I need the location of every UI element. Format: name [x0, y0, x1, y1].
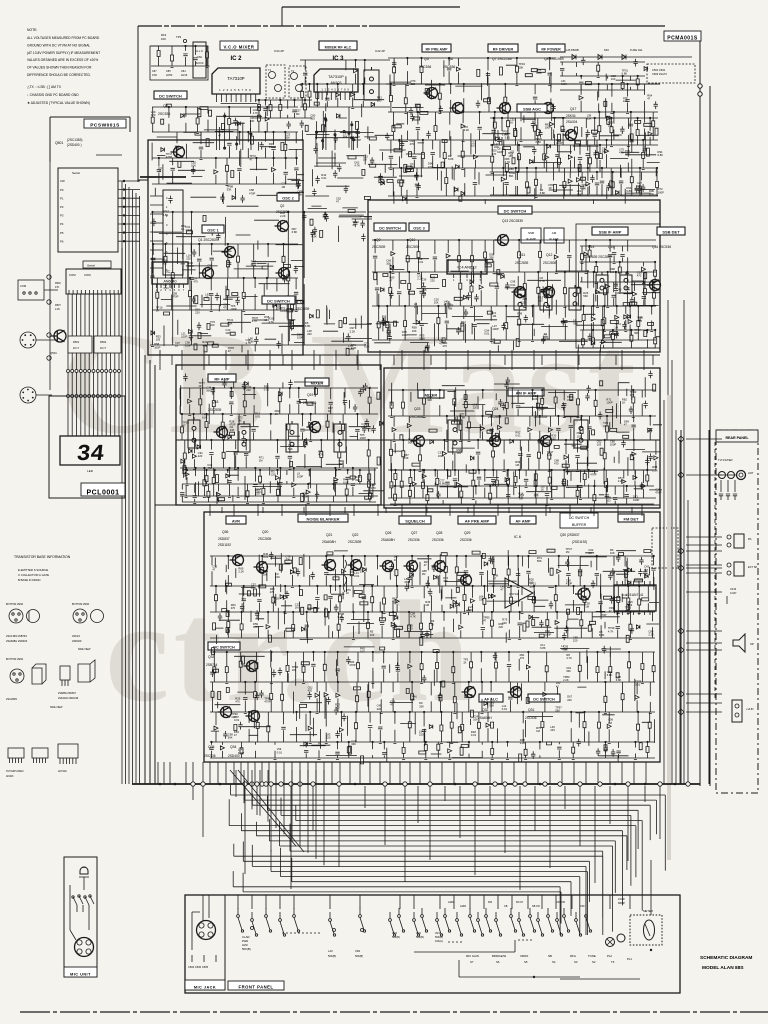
- svg-text:220: 220: [430, 279, 435, 283]
- svg-text:33K: 33K: [479, 598, 484, 602]
- MIXER label box rx: [305, 378, 329, 386]
- front panel switches: [238, 908, 590, 934]
- svg-text:CB/PA: CB/PA: [520, 954, 528, 958]
- IC3 pin drop wires: [315, 107, 358, 150]
- DC SWITCH Q31 label box: [528, 694, 560, 702]
- svg-text:56K: 56K: [408, 441, 413, 445]
- strip divider wires: [122, 180, 660, 762]
- svg-text:6800P: 6800P: [618, 902, 625, 905]
- vco input column parts: [151, 46, 210, 68]
- svg-text:2SD866 2SD837: 2SD866 2SD837: [58, 692, 77, 695]
- svg-text:103: 103: [156, 338, 161, 342]
- svg-text:470P: 470P: [590, 472, 596, 476]
- svg-text:TA7310P AN612: TA7310P AN612: [6, 770, 24, 773]
- selector switch rotary B: [20, 387, 36, 403]
- supply diodes: [572, 55, 626, 60]
- svg-text:2SD400: 2SD400: [72, 639, 82, 643]
- svg-text:4.7K: 4.7K: [252, 319, 258, 323]
- rx strip signal wire: [176, 439, 660, 441]
- op-amp IC6 triangle: [505, 578, 533, 608]
- svg-text:Q28: Q28: [436, 531, 443, 535]
- svg-text:1/50: 1/50: [152, 74, 157, 77]
- top inner border line: [282, 6, 460, 8]
- svg-text:33K: 33K: [489, 256, 494, 260]
- svg-text:6.8K: 6.8K: [292, 230, 298, 234]
- svg-text:IC 3: IC 3: [332, 56, 344, 62]
- if can T7: [334, 421, 346, 452]
- svg-text:6.8K: 6.8K: [616, 678, 622, 682]
- svg-text:1K: 1K: [269, 145, 272, 149]
- svg-text:1K: 1K: [431, 622, 434, 626]
- svg-text:103: 103: [335, 706, 340, 710]
- MIC JACK label box: [185, 980, 225, 990]
- svg-text:2SA304: 2SA304: [566, 120, 578, 124]
- svg-text:470: 470: [625, 152, 630, 156]
- svg-text:47: 47: [609, 609, 612, 613]
- svg-text:2.2K: 2.2K: [563, 678, 569, 682]
- svg-text:PA: PA: [748, 537, 752, 541]
- svg-text:220: 220: [551, 436, 556, 440]
- vco lower component rows: [151, 244, 299, 312]
- svg-text:470: 470: [410, 142, 415, 146]
- bus vertical drops: [193, 786, 660, 890]
- transistor Q17: [563, 130, 577, 141]
- transistor Q20: [254, 562, 268, 573]
- svg-text:FUSE 10A: FUSE 10A: [630, 48, 643, 52]
- ladder junction circles row2: [67, 395, 70, 398]
- svg-text:100P: 100P: [181, 335, 187, 339]
- svg-text:S4: S4: [552, 960, 556, 964]
- between IC boxes parts: [300, 60, 390, 109]
- selector output wires: [118, 181, 140, 241]
- svg-text:47: 47: [647, 96, 650, 100]
- svg-text:LA3: LA3: [328, 949, 333, 953]
- svg-text:Q2: Q2: [280, 204, 284, 208]
- nb texture 3: [549, 550, 659, 643]
- bus stub dots: [159, 783, 162, 786]
- svg-text:10K: 10K: [191, 164, 196, 168]
- svg-text:GROUND WITH DC VTVM AT NO SIGN: GROUND WITH DC VTVM AT NO SIGNAL: [27, 43, 90, 47]
- RF POWER label box: [537, 44, 565, 52]
- svg-text:2.2K: 2.2K: [280, 214, 286, 218]
- svg-text:100P: 100P: [556, 141, 562, 145]
- svg-text:VR2: VR2: [416, 932, 421, 935]
- svg-text:47: 47: [517, 314, 520, 318]
- svg-text:C85: C85: [166, 70, 171, 73]
- vco section inner box: [148, 140, 303, 355]
- if strip texture left: [374, 259, 504, 353]
- vco circuit texture lower: [152, 206, 304, 352]
- harness wires: [229, 780, 665, 935]
- svg-text:Q24: Q24: [492, 407, 499, 411]
- mic jack connector: [197, 921, 216, 940]
- svg-text:SP: SP: [750, 642, 754, 646]
- svg-text:2.2K: 2.2K: [648, 633, 654, 637]
- svg-text:2.2K: 2.2K: [618, 479, 624, 483]
- trunk comb to bus: [158, 762, 646, 784]
- svg-text:2.2K: 2.2K: [520, 741, 526, 745]
- rx strip texture 2: [392, 377, 605, 504]
- svg-text:34: 34: [75, 441, 105, 467]
- svg-text:4.7K: 4.7K: [370, 486, 376, 490]
- harness left risers: [236, 770, 324, 865]
- svg-text:33K: 33K: [491, 340, 496, 344]
- svg-text:Q501: Q501: [50, 351, 57, 355]
- svg-text:470: 470: [442, 344, 447, 348]
- svg-text:50K(B): 50K(B): [242, 947, 251, 951]
- svg-text:33K: 33K: [286, 558, 291, 562]
- svg-text:56K: 56K: [602, 150, 607, 154]
- meter movement: [644, 920, 655, 940]
- svg-text:Q501: Q501: [55, 141, 63, 145]
- svg-text:REAR PANEL: REAR PANEL: [725, 436, 749, 440]
- svg-text:C42 2P: C42 2P: [375, 49, 385, 53]
- svg-text:0.01: 0.01: [515, 434, 521, 438]
- svg-text:BOTTOM VIEW: BOTTOM VIEW: [6, 658, 24, 661]
- svg-text:2SK34: 2SK34: [72, 634, 80, 638]
- svg-text:IC4 AN612: IC4 AN612: [457, 265, 477, 270]
- panel bottom wires: [414, 940, 580, 977]
- svg-text:FRONT PANEL: FRONT PANEL: [239, 984, 274, 989]
- if can T11: [514, 287, 526, 310]
- svg-text:1K: 1K: [603, 424, 606, 428]
- svg-text:PA CH: PA CH: [516, 901, 523, 904]
- svg-text:Q33: Q33: [208, 655, 215, 659]
- vco lower outer rails: [150, 212, 366, 347]
- svg-text:Q23: Q23: [414, 407, 421, 411]
- meter dashed box: [630, 915, 662, 945]
- svg-text:220: 220: [573, 638, 578, 642]
- svg-text:RF DRIVER: RF DRIVER: [493, 48, 514, 52]
- svg-text:BOTTOM VIEW: BOTTOM VIEW: [72, 603, 90, 606]
- svg-text:2SK34: 2SK34: [566, 114, 576, 118]
- svg-text:MIC: MIC: [82, 867, 86, 869]
- IC3 TA7310P AN103: [314, 69, 358, 92]
- left trunk junction circles: [47, 275, 51, 279]
- DC SWITCH Q13 label box: [498, 206, 532, 214]
- svg-text:MODEL ALAN 88S: MODEL ALAN 88S: [702, 965, 744, 971]
- svg-text:E EMITTER S SOURCE: E EMITTER S SOURCE: [18, 568, 48, 572]
- svg-text:0.047: 0.047: [730, 591, 737, 595]
- ladder junction circles row1: [67, 370, 70, 373]
- transistor Q7: [497, 103, 511, 114]
- PCL0001 board outline: [49, 396, 125, 498]
- svg-text:56K: 56K: [555, 709, 560, 713]
- relay area parts: [560, 62, 645, 90]
- svg-text:ANT: ANT: [748, 471, 754, 475]
- svg-text:470: 470: [492, 152, 497, 156]
- FRONT PANEL label box: [228, 981, 284, 990]
- svg-text:1K: 1K: [156, 309, 159, 313]
- svg-text:220: 220: [195, 311, 200, 315]
- squelch pot zigzag: [344, 560, 347, 592]
- svg-text:100P: 100P: [154, 345, 160, 349]
- counter pin ticks: [69, 290, 118, 294]
- svg-text:56K: 56K: [573, 321, 578, 325]
- svg-text:103: 103: [538, 299, 543, 303]
- svg-text:2SC2839: 2SC2839: [6, 697, 17, 701]
- svg-text:6.8K: 6.8K: [599, 633, 605, 637]
- svg-text:6.8K: 6.8K: [440, 482, 446, 486]
- testpoint TP3: [183, 39, 186, 42]
- svg-text:RF AMP: RF AMP: [214, 377, 230, 382]
- if strip top wires: [368, 211, 660, 213]
- note text block: [27, 28, 100, 105]
- svg-text:2SD1192: 2SD1192: [218, 543, 231, 547]
- Serial label box small: [83, 261, 111, 268]
- svg-text:220: 220: [523, 297, 528, 301]
- LED display box: [60, 436, 120, 465]
- svg-text:470P: 470P: [238, 751, 244, 755]
- svg-text:P4: P4: [60, 222, 64, 226]
- MIC UNIT box: [64, 857, 97, 977]
- svg-text:100P: 100P: [297, 336, 303, 340]
- DC SWITCH osc label box: [374, 223, 406, 231]
- svg-text:56K: 56K: [583, 294, 588, 298]
- DC SWITCH Q33 label box: [208, 642, 240, 650]
- svg-text:R50?: R50?: [55, 304, 61, 307]
- svg-text:50K(B): 50K(B): [392, 936, 400, 939]
- svg-text:SSB: SSB: [528, 231, 534, 235]
- power connector: [732, 700, 742, 722]
- ssb agc component rows: [490, 118, 658, 195]
- svg-text:0.01: 0.01: [264, 388, 270, 392]
- nb component rows lower: [209, 652, 655, 760]
- if can T14: [596, 272, 608, 293]
- svg-text:1K: 1K: [346, 591, 349, 595]
- panel entry stubs: [238, 895, 630, 909]
- svg-text:6.8K: 6.8K: [348, 347, 354, 351]
- svg-text:DC SWITCH: DC SWITCH: [379, 227, 401, 231]
- transistor can drawing 4: [91, 610, 104, 623]
- svg-text:OSC: OSC: [197, 55, 203, 59]
- svg-text:4.7K: 4.7K: [539, 279, 545, 283]
- svg-text:4.7K: 4.7K: [514, 688, 520, 692]
- svg-text:2.2K: 2.2K: [350, 329, 356, 333]
- svg-text:0.01: 0.01: [510, 283, 516, 287]
- svg-text:4.7K: 4.7K: [410, 614, 416, 618]
- svg-text:C504 C506 C505: C504 C506 C505: [188, 965, 209, 969]
- svg-text:C503 2SA73: C503 2SA73: [652, 72, 667, 76]
- svg-text:1K: 1K: [328, 409, 331, 413]
- transistor Q26: [380, 561, 394, 572]
- svg-text:1K: 1K: [549, 186, 552, 190]
- svg-text:A4R3: A4R3: [460, 905, 467, 908]
- top border dashed left part: [138, 25, 388, 27]
- svg-text:103: 103: [597, 442, 602, 446]
- svg-text:47: 47: [624, 423, 627, 427]
- svg-text:2SC2839: 2SC2839: [276, 210, 290, 214]
- transistor package 3: [60, 666, 70, 680]
- svg-text:6.8K: 6.8K: [502, 132, 508, 136]
- svg-text:Q17: Q17: [570, 107, 577, 111]
- mic connector circle: [75, 938, 94, 957]
- if can T13: [569, 285, 581, 310]
- rx strip outer box left: [176, 365, 381, 505]
- svg-text:DC SWITCH: DC SWITCH: [504, 209, 527, 214]
- svg-text:IC 1: IC 1: [166, 269, 174, 274]
- svg-text:56K: 56K: [206, 389, 211, 393]
- svg-text:DC SWITCH: DC SWITCH: [159, 94, 182, 99]
- rx strip bottom rows right: [390, 470, 654, 506]
- transistor Q8: [540, 103, 554, 114]
- svg-text:B BASE D DRAIN: B BASE D DRAIN: [18, 578, 40, 582]
- DC SWITCH Q3 label box: [262, 296, 295, 304]
- AF ALC label box: [479, 694, 503, 702]
- svg-text:47: 47: [389, 279, 392, 283]
- svg-text:2SC2839: 2SC2839: [543, 261, 557, 265]
- svg-text:6.8K: 6.8K: [626, 189, 632, 193]
- svg-text:Q3: Q3: [300, 300, 305, 304]
- svg-text:470: 470: [468, 608, 473, 612]
- svg-text:33K: 33K: [227, 188, 232, 192]
- SQUELCH label box: [399, 516, 431, 524]
- svg-text:TA7310P: TA7310P: [328, 75, 344, 79]
- svg-text:470P: 470P: [264, 700, 270, 704]
- svg-text:2.2K: 2.2K: [238, 570, 244, 574]
- svg-text:33K: 33K: [587, 117, 592, 121]
- NOISE BLANKER label box: [298, 514, 348, 522]
- meter feed wire: [650, 860, 652, 915]
- rx strip component rows right: [388, 390, 658, 500]
- IC5 DIP box: [614, 585, 656, 611]
- transistor Q2 circle: [275, 221, 289, 232]
- svg-text:4.7K: 4.7K: [566, 656, 572, 660]
- svg-text:4.7K: 4.7K: [354, 164, 360, 168]
- svg-text:50K(B): 50K(B): [416, 936, 424, 939]
- svg-text:Q26: Q26: [385, 531, 392, 535]
- right bus junction diamonds: [678, 436, 684, 715]
- svg-text:47: 47: [444, 302, 447, 306]
- svg-text:BLOCK: BLOCK: [195, 62, 204, 65]
- svg-text:6.8K: 6.8K: [460, 415, 466, 419]
- svg-text:47: 47: [336, 200, 339, 204]
- svg-text:EXT SP: EXT SP: [748, 565, 757, 569]
- svg-text:100P: 100P: [297, 475, 303, 479]
- transistor package 1: [10, 669, 24, 683]
- if can T12: [540, 287, 552, 310]
- svg-text:103: 103: [264, 318, 269, 322]
- svg-text:VALUES OBTAINED ARE IN EXCESS: VALUES OBTAINED ARE IN EXCESS OF ±20%: [27, 58, 98, 62]
- svg-text:50K(B): 50K(B): [328, 954, 336, 958]
- svg-text:2SA608H: 2SA608H: [381, 538, 395, 542]
- rx strip texture 3: [598, 371, 662, 493]
- svg-text:220: 220: [499, 625, 504, 629]
- svg-text:10K: 10K: [610, 551, 615, 555]
- svg-text:AF PRE AMP: AF PRE AMP: [465, 519, 490, 524]
- svg-text:TRANSISTOR BASE INFORMATION: TRANSISTOR BASE INFORMATION: [14, 555, 71, 559]
- svg-text:47: 47: [493, 577, 496, 581]
- svg-text:47: 47: [228, 349, 231, 353]
- svg-text:TA7310P: TA7310P: [227, 76, 244, 81]
- IC2 pin drop wires: [216, 103, 262, 150]
- svg-text:220: 220: [411, 82, 416, 86]
- svg-text:2SC536: 2SC536: [460, 538, 472, 542]
- svg-text:2SC2839: 2SC2839: [515, 261, 529, 265]
- svg-text:100P: 100P: [280, 309, 286, 313]
- SSB DET label box: [657, 227, 685, 235]
- svg-text:MIXER: MIXER: [311, 381, 324, 386]
- svg-text:100P: 100P: [360, 436, 366, 440]
- transistor Q5: [424, 88, 438, 99]
- svg-text:AN6040: AN6040: [164, 280, 177, 284]
- mic jack entry wires: [192, 895, 209, 950]
- svg-text:10K: 10K: [386, 262, 391, 266]
- svg-text:470P: 470P: [349, 663, 355, 667]
- nb texture 2: [379, 549, 555, 645]
- svg-text:Q35: Q35: [208, 745, 215, 749]
- svg-text:1K: 1K: [622, 401, 625, 405]
- svg-text:33K: 33K: [577, 192, 582, 196]
- svg-text:C501 C502: C501 C502: [652, 68, 666, 72]
- svg-text:103: 103: [577, 434, 582, 438]
- tvi filter components: [716, 475, 737, 500]
- SSB IF AMP label box: [592, 227, 628, 235]
- svg-text:470P: 470P: [249, 191, 255, 195]
- svg-text:Q12: Q12: [546, 253, 553, 257]
- gray scan streak: [667, 395, 671, 860]
- svg-text:SSB AGC: SSB AGC: [523, 107, 541, 112]
- svg-text:V.C.O MIXER: V.C.O MIXER: [224, 44, 255, 49]
- svg-text:470: 470: [193, 280, 198, 284]
- transistor Q33: [244, 661, 258, 672]
- svg-text:33K: 33K: [566, 669, 571, 673]
- svg-text:470P: 470P: [566, 582, 572, 586]
- svg-text:103: 103: [610, 270, 615, 274]
- MIXER RF ALC label box: [319, 41, 357, 50]
- transformer T2: [289, 66, 306, 98]
- svg-text:OSC 2: OSC 2: [282, 197, 293, 201]
- svg-text:Q13 2SC2839: Q13 2SC2839: [502, 219, 523, 223]
- svg-text:470P: 470P: [600, 613, 606, 617]
- svg-text:2SD837: 2SD837: [218, 537, 230, 541]
- svg-text:P2: P2: [60, 205, 64, 209]
- pilot lamp PL1: [617, 934, 625, 942]
- svg-text:0.01: 0.01: [255, 415, 261, 419]
- svg-text:100P: 100P: [610, 443, 616, 447]
- DC SWITCH Q4 label box: [154, 91, 187, 99]
- svg-text:47: 47: [352, 223, 355, 227]
- svg-text:C84: C84: [181, 70, 186, 73]
- svg-text:10K: 10K: [275, 575, 280, 579]
- border junction circles: [698, 84, 702, 88]
- svg-text:470: 470: [408, 626, 413, 630]
- svg-text:P3: P3: [60, 214, 64, 218]
- svg-text:470P: 470P: [655, 490, 661, 494]
- selector switch block upper: [18, 280, 44, 300]
- svg-text:33K: 33K: [351, 742, 356, 746]
- transistor Q29: [458, 575, 472, 586]
- svg-text:0.01: 0.01: [518, 495, 524, 499]
- svg-text:R502: R502: [55, 282, 61, 285]
- svg-text:0.01: 0.01: [635, 683, 641, 687]
- svg-text:470: 470: [554, 462, 559, 466]
- svg-text:6.8K: 6.8K: [364, 345, 370, 349]
- transistor near osc1: [200, 268, 214, 279]
- svg-text:47: 47: [483, 618, 486, 622]
- if can T15: [620, 272, 632, 293]
- svg-text:56K: 56K: [343, 135, 348, 139]
- vco caps box: [150, 46, 208, 80]
- transistor Q12b: [541, 287, 555, 298]
- RF DRIVER label box: [488, 44, 518, 52]
- svg-text:Q30 (2SD837: Q30 (2SD837: [560, 533, 580, 537]
- if can T8: [448, 417, 462, 452]
- transistor Q28: [432, 561, 446, 572]
- svg-text:10K: 10K: [637, 184, 642, 188]
- svg-text:4.7K: 4.7K: [392, 600, 398, 604]
- svg-text:6.8K: 6.8K: [202, 415, 208, 419]
